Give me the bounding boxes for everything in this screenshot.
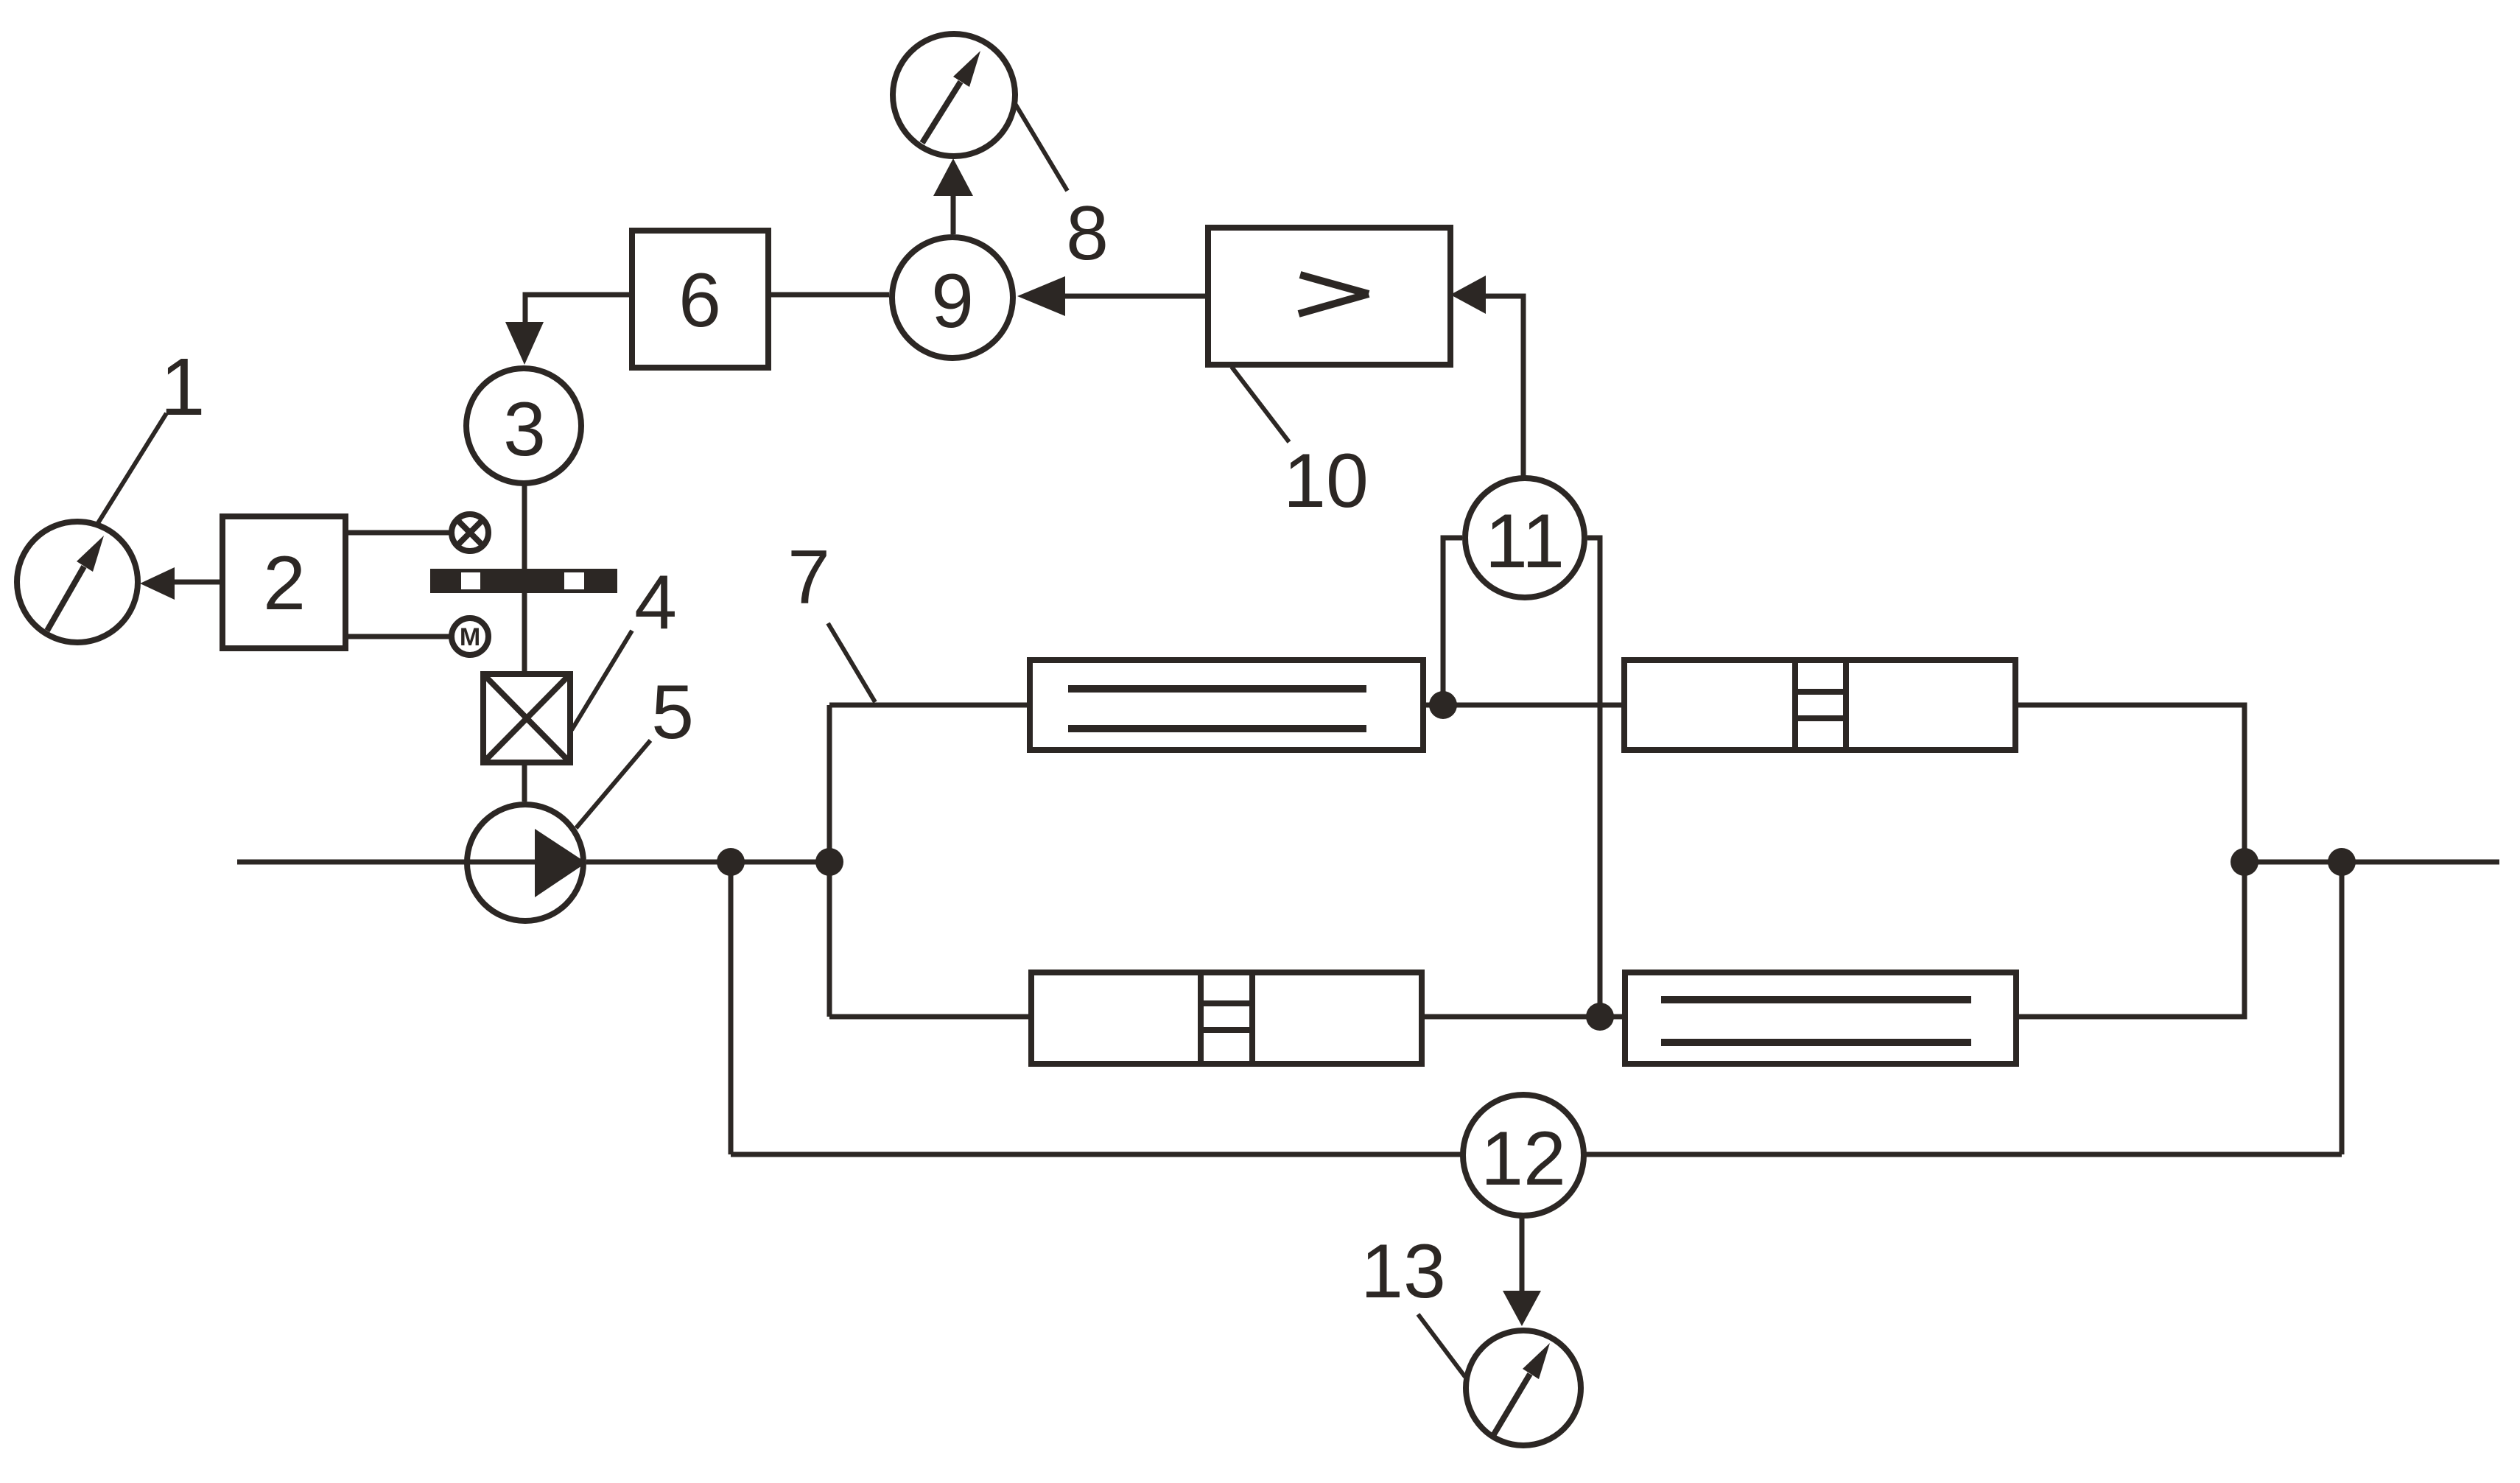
svg-text:3: 3 xyxy=(503,387,546,472)
wire left leg of circle 11 xyxy=(1443,538,1462,705)
gauge 13 xyxy=(1466,1331,1581,1445)
pump 5 xyxy=(467,804,586,921)
wire lower branch right xyxy=(2016,862,2245,1017)
circle 3 xyxy=(466,368,581,483)
node junction E after box 7 xyxy=(1429,691,1457,719)
wire valve 4 to pump 5 xyxy=(522,762,527,802)
heat exchanger box 7 upper-left xyxy=(1030,660,1423,750)
leader line label 13 xyxy=(1418,1314,1465,1377)
node junction A xyxy=(717,848,745,876)
node junction B xyxy=(815,848,843,876)
node junction D xyxy=(2328,848,2356,876)
box 6 xyxy=(632,231,768,368)
leader line label 4 xyxy=(572,631,632,730)
arrowhead into box 10 xyxy=(1450,276,1486,314)
arrowhead into circle 9 xyxy=(1017,276,1065,316)
arrowhead into gauge 13 xyxy=(1503,1291,1541,1326)
wire arrow line into circle 9 xyxy=(1065,294,1208,299)
leader line label 8 xyxy=(1014,102,1067,191)
wire circle 9 up to gauge 8 xyxy=(951,196,956,234)
svg-text:10: 10 xyxy=(1283,438,1369,524)
gauge 8 needle xyxy=(922,51,980,143)
leader line label 1 xyxy=(98,413,166,523)
wire vertical right from junction D down to bottom line xyxy=(2340,862,2345,1154)
wire vertical from junction A down xyxy=(729,862,734,1154)
gauge 13 needle xyxy=(1494,1343,1550,1434)
wire box 2 to lamp symbol xyxy=(345,530,451,536)
piston box upper-right xyxy=(1624,660,2015,750)
svg-text:2: 2 xyxy=(263,541,306,626)
valve 4 xyxy=(483,674,570,762)
wire vertical at junction B xyxy=(827,705,832,1017)
arrowhead into gauge 8 xyxy=(933,158,973,196)
wire bottom line left of 12 xyxy=(731,1152,1461,1157)
svg-text:7: 7 xyxy=(787,535,830,620)
arrowhead into gauge 1 xyxy=(140,567,175,600)
wire lower branch left xyxy=(829,1014,1031,1020)
wire bottom line right of 12 xyxy=(1585,1152,2342,1157)
circle 11 xyxy=(1465,478,1584,597)
wire upper branch right xyxy=(2015,705,2245,862)
greater-than symbol in box 10 xyxy=(1299,275,1369,314)
wire from corner to box 6 xyxy=(525,295,632,328)
node junction F on lower branch xyxy=(1586,1003,1614,1031)
circle 9 xyxy=(892,237,1013,358)
svg-text:5: 5 xyxy=(651,670,694,755)
wire box 10 to circle 11 top xyxy=(1486,296,1523,477)
wire main line pump to junction B xyxy=(586,860,829,865)
wire box 2 to gauge 1 xyxy=(175,580,222,585)
sampler bar xyxy=(430,569,617,593)
wire upper branch left xyxy=(829,703,1030,708)
svg-text:12: 12 xyxy=(1481,1116,1566,1202)
wire box 2 to motor symbol xyxy=(345,634,451,639)
arrowhead into circle 3 xyxy=(505,322,544,365)
wire main line left segment xyxy=(237,860,535,865)
wire right leg of circle 11 xyxy=(1587,538,1600,1017)
box 10 xyxy=(1208,228,1450,365)
box 2 xyxy=(222,516,345,648)
svg-text:11: 11 xyxy=(1485,499,1565,584)
circle 12 xyxy=(1463,1095,1584,1216)
svg-text:4: 4 xyxy=(634,560,677,645)
svg-text:9: 9 xyxy=(931,259,974,344)
wire circle 12 down to gauge 13 xyxy=(1520,1217,1525,1291)
svg-text:6: 6 xyxy=(678,258,721,343)
lamp symbol circle-X xyxy=(452,514,488,551)
wire box 6 to circle 9 xyxy=(768,292,889,298)
gauge 1 needle xyxy=(47,536,104,631)
wire circle 3 down to valve 4 xyxy=(522,483,527,674)
node junction C xyxy=(2231,848,2258,876)
motor symbol circle-M xyxy=(452,618,488,655)
gauge 8 xyxy=(893,34,1015,156)
svg-text:13: 13 xyxy=(1361,1229,1446,1314)
svg-text:8: 8 xyxy=(1066,191,1109,276)
wire lower branch middle xyxy=(1422,1014,1625,1020)
svg-text:1: 1 xyxy=(160,342,205,432)
gauge 1 xyxy=(17,522,138,642)
svg-text:M: M xyxy=(460,623,480,651)
leader line label 7 xyxy=(828,623,875,702)
leader line label 5 xyxy=(576,740,650,828)
wire main line right segment xyxy=(2245,860,2499,865)
wire upper branch middle xyxy=(1423,703,1624,708)
leader line label 10 xyxy=(1232,367,1289,442)
piston box lower-left xyxy=(1031,972,1422,1064)
heat exchanger box lower-right xyxy=(1625,972,2016,1064)
